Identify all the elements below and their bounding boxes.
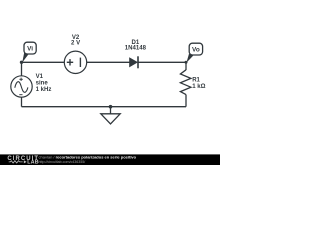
svg-text:V1: V1 <box>36 74 44 80</box>
svg-text:LAB: LAB <box>27 160 38 165</box>
svg-text:R1: R1 <box>192 77 200 83</box>
svg-text:2 V: 2 V <box>71 41 80 47</box>
svg-text:Vo: Vo <box>192 46 200 53</box>
svg-text:chavlan / recortadores polariz: chavlan / recortadores polarizados en se… <box>39 154 137 159</box>
svg-text:1 kHz: 1 kHz <box>36 87 52 93</box>
svg-text:1 kΩ: 1 kΩ <box>192 84 205 90</box>
svg-text:1N4148: 1N4148 <box>125 46 147 52</box>
svg-text:Vi: Vi <box>27 45 33 52</box>
svg-text:http://circuitlab.com/c436355/: http://circuitlab.com/c436355/ <box>39 160 86 164</box>
svg-text:sine: sine <box>36 80 49 86</box>
